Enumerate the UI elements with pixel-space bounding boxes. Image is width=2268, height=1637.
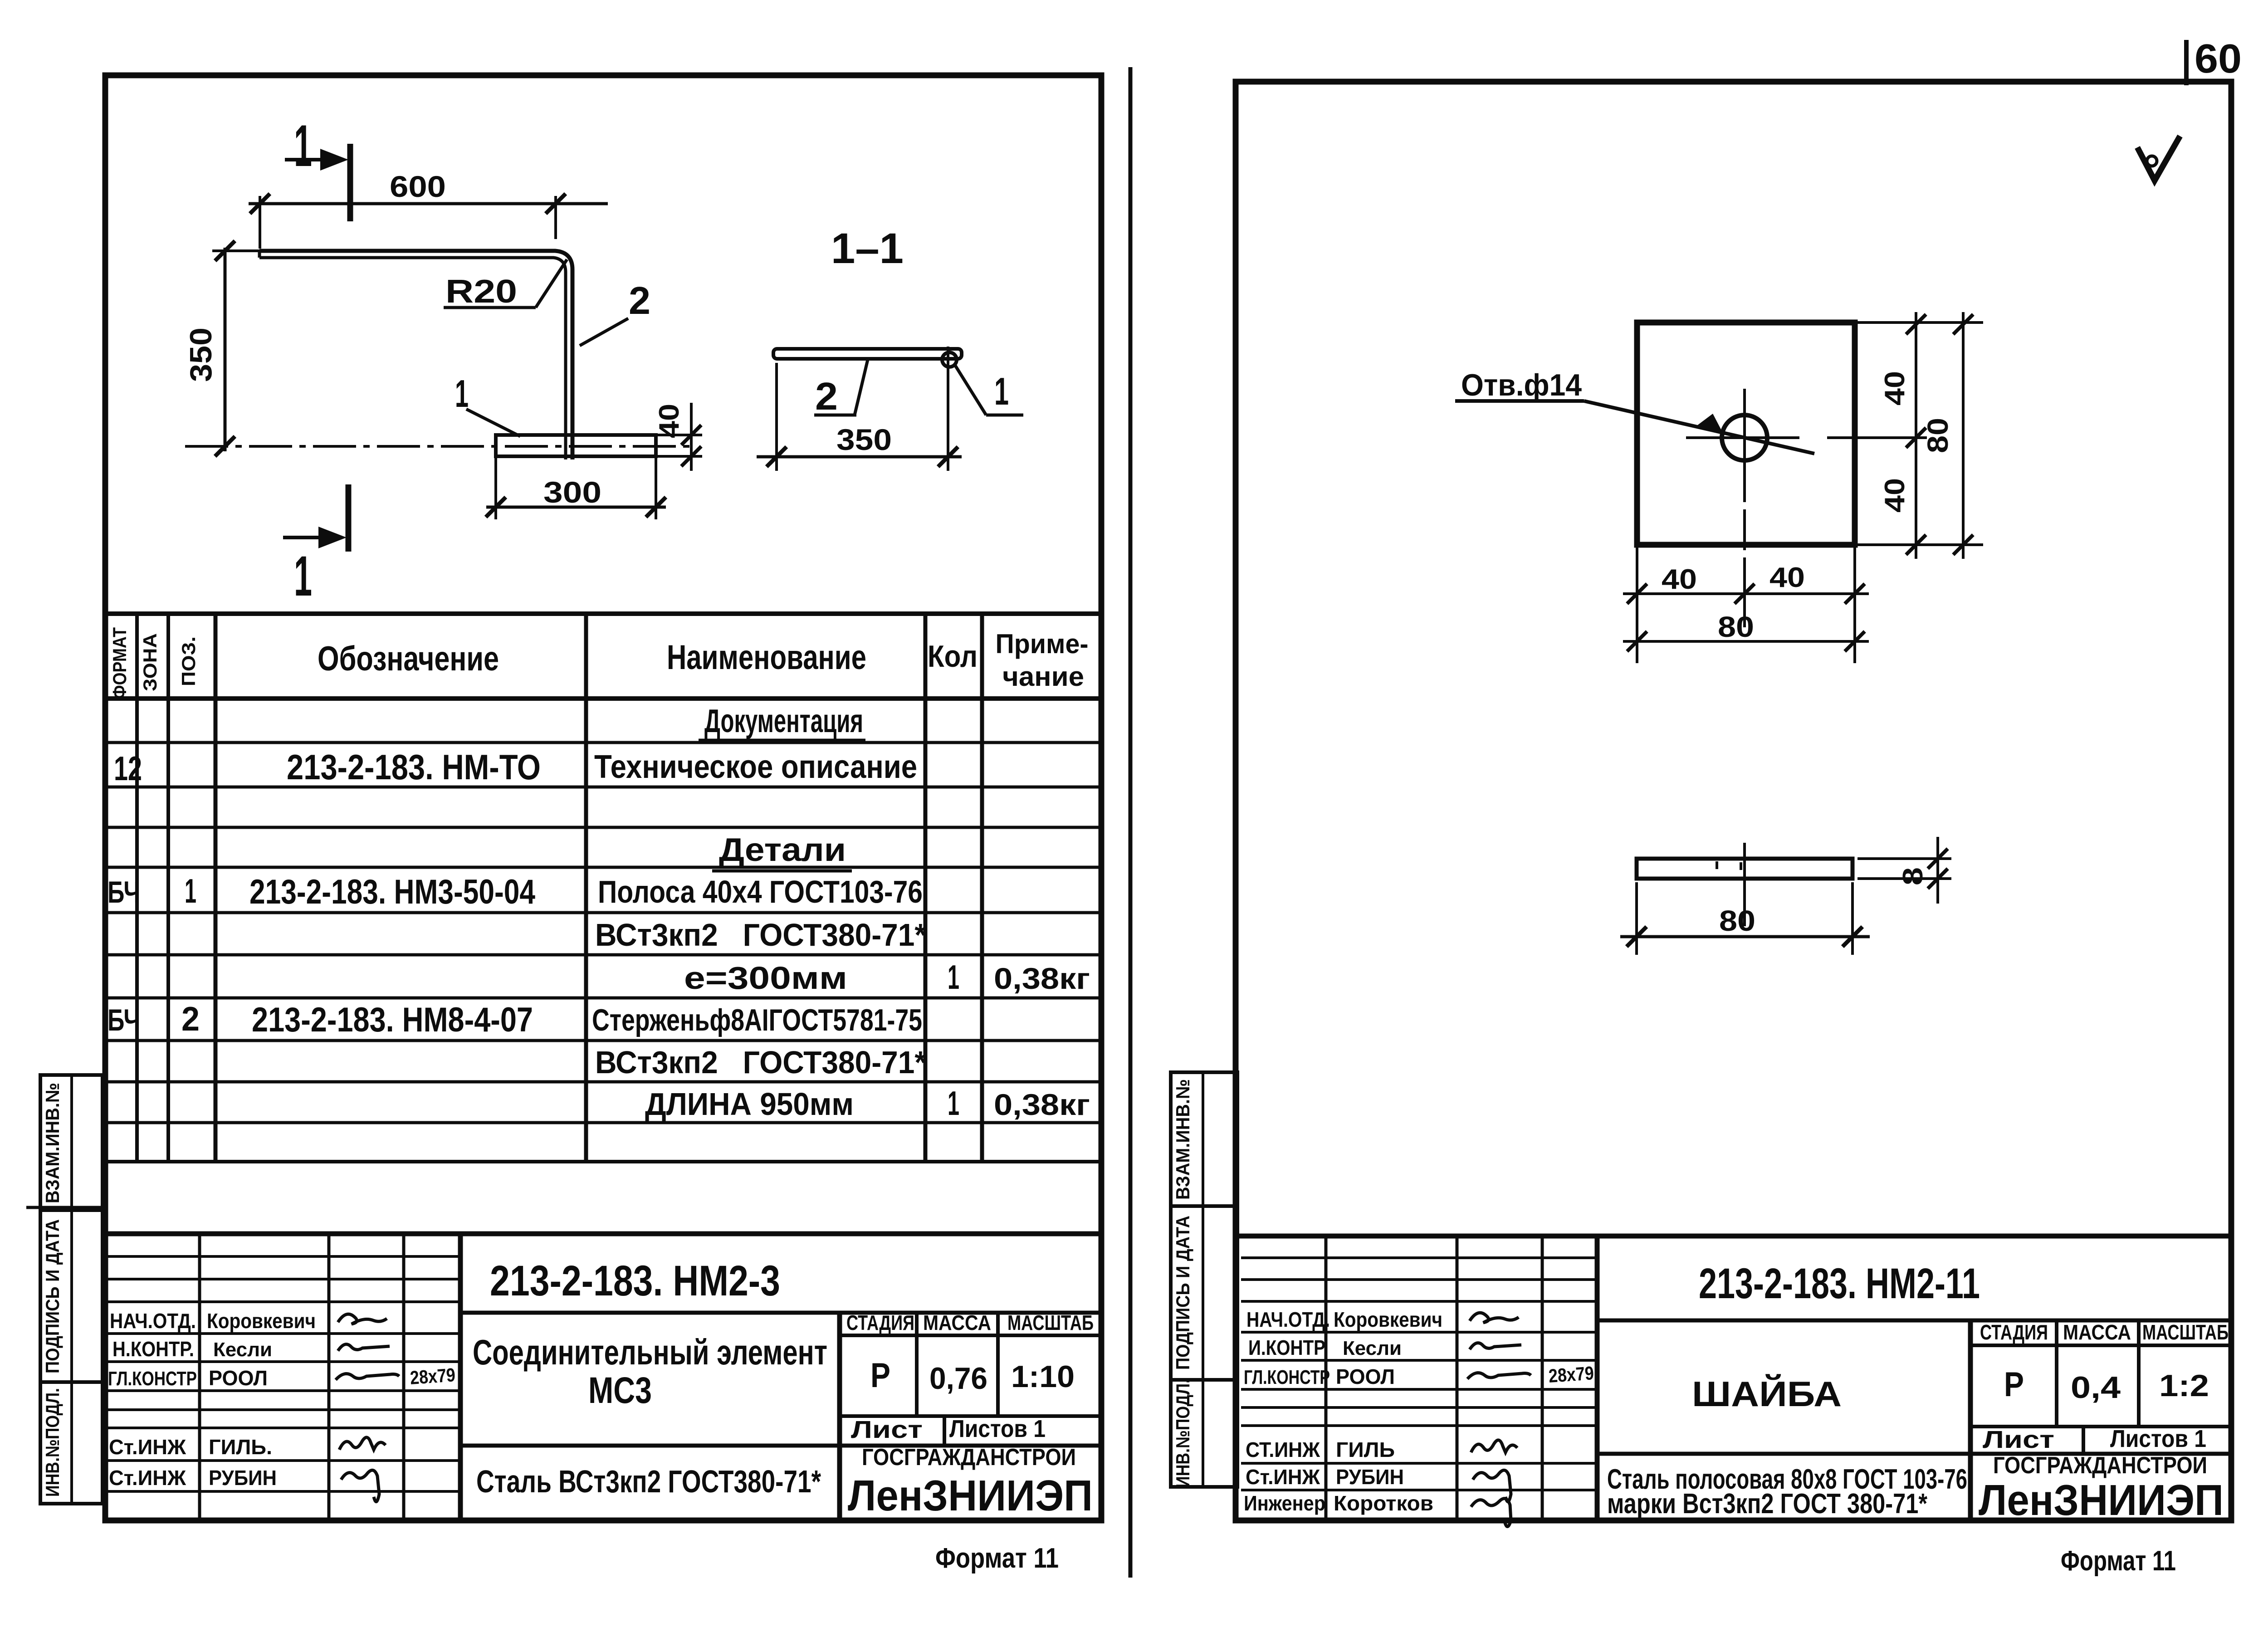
svg-text:Р: Р [2004,1365,2024,1404]
right stamp stadia header [1980,1320,2229,1344]
svg-text:СТ.ИНЖ: СТ.ИНЖ [1246,1438,1320,1461]
svg-text:ИНВ.№ПОДЛ.: ИНВ.№ПОДЛ. [42,1388,63,1497]
svg-text:НАЧ.ОТД.: НАЧ.ОТД. [1246,1308,1330,1331]
left title designation [490,1257,780,1305]
side dim 80 [1620,882,1870,955]
fold mark left edge [26,1206,105,1209]
spec table grid [105,614,1101,1162]
svg-text:МАССА: МАССА [923,1311,991,1334]
svg-text:80: 80 [1718,611,1754,643]
svg-text:1:2: 1:2 [2159,1368,2209,1403]
svg-text:марки Вст3кп2 ГОСТ 380-71*: марки Вст3кп2 ГОСТ 380-71* [1607,1488,1928,1520]
right stamp staff labels [1244,1308,1330,1515]
svg-text:ДЛИНА 950мм: ДЛИНА 950мм [645,1086,854,1122]
table row sterzhen [108,1000,922,1039]
svg-text:е=300мм: е=300мм [684,960,847,996]
svg-text:0,4: 0,4 [2071,1370,2121,1405]
svg-text:Приме-: Приме- [996,629,1089,659]
svg-text:ЗОНА: ЗОНА [139,633,161,691]
svg-text:Лист: Лист [1983,1426,2054,1453]
svg-text:ПОДПИСЬ И ДАТА: ПОДПИСЬ И ДАТА [1172,1216,1193,1370]
svg-text:2: 2 [181,1000,200,1038]
svg-text:213-2-183. НМ2-11: 213-2-183. НМ2-11 [1699,1260,1980,1308]
right title block grid [1236,1236,2231,1520]
format label left [935,1543,1059,1574]
svg-text:Кесли: Кесли [1343,1337,1402,1359]
svg-text:Листов 1: Листов 1 [949,1415,1046,1442]
svg-text:0,38кг: 0,38кг [994,962,1090,995]
svg-text:ГИЛЬ.: ГИЛЬ. [209,1435,272,1459]
svg-text:1: 1 [185,872,196,910]
svg-text:1: 1 [994,370,1009,413]
svg-text:Обозначение: Обозначение [318,640,499,678]
svg-text:40: 40 [1879,371,1911,406]
right title designation [1699,1260,1980,1308]
table row polosa [108,872,923,911]
svg-text:ГИЛЬ: ГИЛЬ [1336,1438,1395,1461]
svg-text:ЛенЗНИИЭП: ЛенЗНИИЭП [1979,1476,2224,1525]
svg-text:Ст.ИНЖ: Ст.ИНЖ [1246,1465,1320,1489]
svg-text:МАСШТАБ: МАСШТАБ [2142,1320,2229,1344]
table row vst3kp2 a [595,917,927,953]
table row vst3kp2 b [595,1045,927,1080]
washer centerlines [1686,389,1927,627]
svg-text:40: 40 [1879,478,1911,513]
left stamp stadia header [846,1311,1094,1334]
right stamp signatures [1467,1313,1594,1526]
left stamp org [848,1444,1093,1520]
dimension 40 plate thickness [654,403,702,471]
svg-text:Р: Р [870,1356,890,1395]
svg-text:ВЗАМ.ИНВ.№: ВЗАМ.ИНВ.№ [1172,1079,1193,1200]
centerline dash-dot [185,445,689,448]
right dim 40 40 [1857,312,1983,559]
left stamp signatures [336,1314,456,1501]
svg-text:1: 1 [294,545,312,608]
left stamp staff labels [108,1309,197,1490]
svg-text:40: 40 [1769,562,1805,593]
left stamp staff names [207,1309,316,1490]
svg-text:ГОСГРАЖДАНСТРОЙ: ГОСГРАЖДАНСТРОЙ [862,1444,1076,1471]
right margin strip [1171,1072,1237,1488]
washer square [1637,323,1855,545]
svg-text:СТАДИЯ: СТАДИЯ [846,1311,914,1334]
table row e300 [684,958,1090,996]
left title material [476,1464,821,1499]
svg-text:ЛенЗНИИЭП: ЛенЗНИИЭП [848,1471,1093,1520]
svg-text:350: 350 [184,327,218,382]
svg-text:8: 8 [1897,867,1929,885]
side dim 8 thickness [1857,837,1951,904]
bent bar part 2 outer line [259,251,572,459]
svg-text:40: 40 [654,404,685,438]
right dim 80 [1921,312,1973,559]
svg-text:Отв.ф14: Отв.ф14 [1461,368,1582,402]
svg-text:Детали: Детали [719,832,846,868]
svg-text:0,76: 0,76 [929,1361,987,1396]
table row detali [712,832,852,871]
svg-text:НАЧ.ОТД.: НАЧ.ОТД. [110,1309,196,1333]
svg-text:ГЛ.КОНСТР: ГЛ.КОНСТР [108,1368,197,1390]
right stamp list row [1983,1425,2206,1453]
svg-text:И.КОНТР: И.КОНТР [1248,1336,1325,1359]
svg-text:Коротков: Коротков [1334,1491,1433,1515]
section marker 1 top [285,112,350,221]
svg-text:ГЛ.КОНСТР: ГЛ.КОНСТР [1244,1366,1330,1388]
svg-text:213-2-183. НМ-ТО: 213-2-183. НМ-ТО [287,747,541,787]
right page frame [1236,82,2231,1520]
plate part 1 [496,435,656,456]
svg-text:Кесли: Кесли [213,1339,272,1361]
svg-text:0,38кг: 0,38кг [994,1088,1090,1121]
left title name MC3 [473,1332,827,1411]
right stamp org [1979,1452,2224,1525]
label 2 leader [580,279,650,346]
svg-text:Соединительный элемент: Соединительный элемент [473,1332,827,1372]
section label 2 [814,360,868,418]
table row dokumentacija [699,703,865,740]
svg-text:Стерженьф8АІГОСТ5781-75: Стерженьф8АІГОСТ5781-75 [592,1003,922,1037]
svg-text:Ст.ИНЖ: Ст.ИНЖ [109,1466,186,1490]
svg-text:1: 1 [294,112,312,179]
svg-text:Коровкевич: Коровкевич [1334,1308,1442,1331]
svg-text:ПОДПИСЬ И ДАТА: ПОДПИСЬ И ДАТА [42,1219,63,1373]
table row techn opisanie [114,747,917,787]
svg-text:Техническое описание: Техническое описание [594,749,917,785]
svg-text:МС3: МС3 [588,1370,652,1411]
surface finish mark [2137,136,2180,181]
svg-text:ПОЗ.: ПОЗ. [178,636,199,686]
page number 60 [2186,36,2242,85]
svg-text:213-2-183. НМ3-50-04: 213-2-183. НМ3-50-04 [249,873,535,911]
svg-text:БЧ: БЧ [108,875,140,909]
right stamp values [2004,1365,2209,1405]
washer hole [1722,415,1767,460]
svg-text:ВСт3кп2 ГОСТ380-71*: ВСт3кп2 ГОСТ380-71* [595,917,927,953]
format label right [2061,1545,2176,1577]
svg-text:Кол: Кол [928,639,978,674]
section label 1 [955,366,1023,415]
svg-text:28х79: 28х79 [409,1364,456,1388]
svg-text:Листов 1: Листов 1 [2110,1425,2206,1452]
svg-text:ВСт3кп2 ГОСТ380-71*: ВСт3кп2 ГОСТ380-71* [595,1045,927,1080]
svg-text:СТАДИЯ: СТАДИЯ [1980,1320,2048,1344]
svg-text:ФОРМАТ: ФОРМАТ [109,627,130,699]
dimension 600 [249,170,608,249]
svg-text:Полоса 40х4 ГОСТ103-76: Полоса 40х4 ГОСТ103-76 [598,874,923,909]
section view rod part 1 [942,352,957,367]
right stamp staff names [1334,1308,1442,1515]
svg-text:1: 1 [948,958,959,996]
svg-text:Лист: Лист [851,1416,923,1443]
fold line between pages [1129,67,1133,1578]
svg-text:1: 1 [948,1084,959,1122]
svg-text:Формат 11: Формат 11 [2061,1545,2176,1577]
left stamp values [870,1356,1075,1396]
svg-text:РУБИН: РУБИН [209,1466,277,1490]
svg-text:60: 60 [2195,36,2242,82]
svg-text:Формат 11: Формат 11 [935,1543,1059,1574]
svg-text:МАССА: МАССА [2063,1320,2131,1344]
left margin strip [40,1075,103,1504]
table header texts [109,627,1089,699]
svg-text:Сталь ВСт3кп2 ГОСТ380-71*: Сталь ВСт3кп2 ГОСТ380-71* [476,1464,821,1499]
svg-text:213-2-183. НМ8-4-07: 213-2-183. НМ8-4-07 [252,1001,533,1039]
bottom dim 40 40 [1623,547,1869,663]
svg-text:Документация: Документация [704,703,863,739]
svg-text:Ст.ИНЖ: Ст.ИНЖ [109,1435,186,1459]
bottom dim 80 [1623,611,1869,651]
svg-text:Коровкевич: Коровкевич [207,1309,316,1333]
svg-text:350: 350 [836,423,892,456]
svg-text:213-2-183. НМ2-3: 213-2-183. НМ2-3 [490,1257,780,1305]
svg-text:40: 40 [1662,564,1697,595]
svg-text:2: 2 [815,375,838,418]
table row dlina950 [645,1084,1090,1122]
svg-text:1–1: 1–1 [831,225,904,273]
svg-text:БЧ: БЧ [108,1003,140,1037]
svg-text:ГОСГРАЖДАНСТРОЙ: ГОСГРАЖДАНСТРОЙ [1993,1452,2207,1479]
section dimension 350 [757,347,962,471]
bent bar part 2 inner line [259,251,566,459]
right title name shajba [1692,1374,1842,1414]
washer side view [1637,843,1853,926]
label 1 leader plate [455,372,520,436]
dimension 350 vertical [184,241,261,456]
svg-text:80: 80 [1719,904,1755,937]
svg-text:РООЛ: РООЛ [1336,1365,1395,1388]
left title block grid [105,1234,1101,1520]
svg-text:ВЗАМ.ИНВ.№: ВЗАМ.ИНВ.№ [42,1083,63,1203]
svg-text:80: 80 [1921,418,1954,453]
right title material [1607,1464,1967,1520]
section view bar part 2 [773,349,962,359]
svg-text:Инженер: Инженер [1244,1491,1325,1515]
svg-text:1:10: 1:10 [1011,1359,1075,1394]
svg-text:600: 600 [390,170,446,203]
dimension 300 [486,458,666,519]
leader Otv f14 [1455,368,1814,454]
section view title 1-1 [831,225,904,273]
svg-text:2: 2 [629,279,650,323]
svg-text:ШАЙБА: ШАЙБА [1692,1374,1842,1414]
svg-text:РООЛ: РООЛ [209,1366,268,1390]
svg-text:Н.КОНТР.: Н.КОНТР. [112,1337,194,1361]
svg-text:РУБИН: РУБИН [1336,1465,1404,1489]
left stamp list row [851,1415,1046,1443]
section marker 1 bottom [283,484,348,608]
svg-text:12: 12 [114,749,142,787]
svg-text:R20: R20 [445,274,517,310]
label R20 [444,259,567,310]
left page frame [105,75,1101,1520]
svg-text:МАСШТАБ: МАСШТАБ [1007,1311,1094,1334]
svg-text:ИНВ.№ПОДЛ.: ИНВ.№ПОДЛ. [1172,1379,1193,1488]
svg-text:28х79: 28х79 [1548,1362,1594,1387]
svg-text:чание: чание [1002,661,1084,692]
svg-text:Наименование: Наименование [667,638,866,677]
svg-text:300: 300 [543,475,601,509]
